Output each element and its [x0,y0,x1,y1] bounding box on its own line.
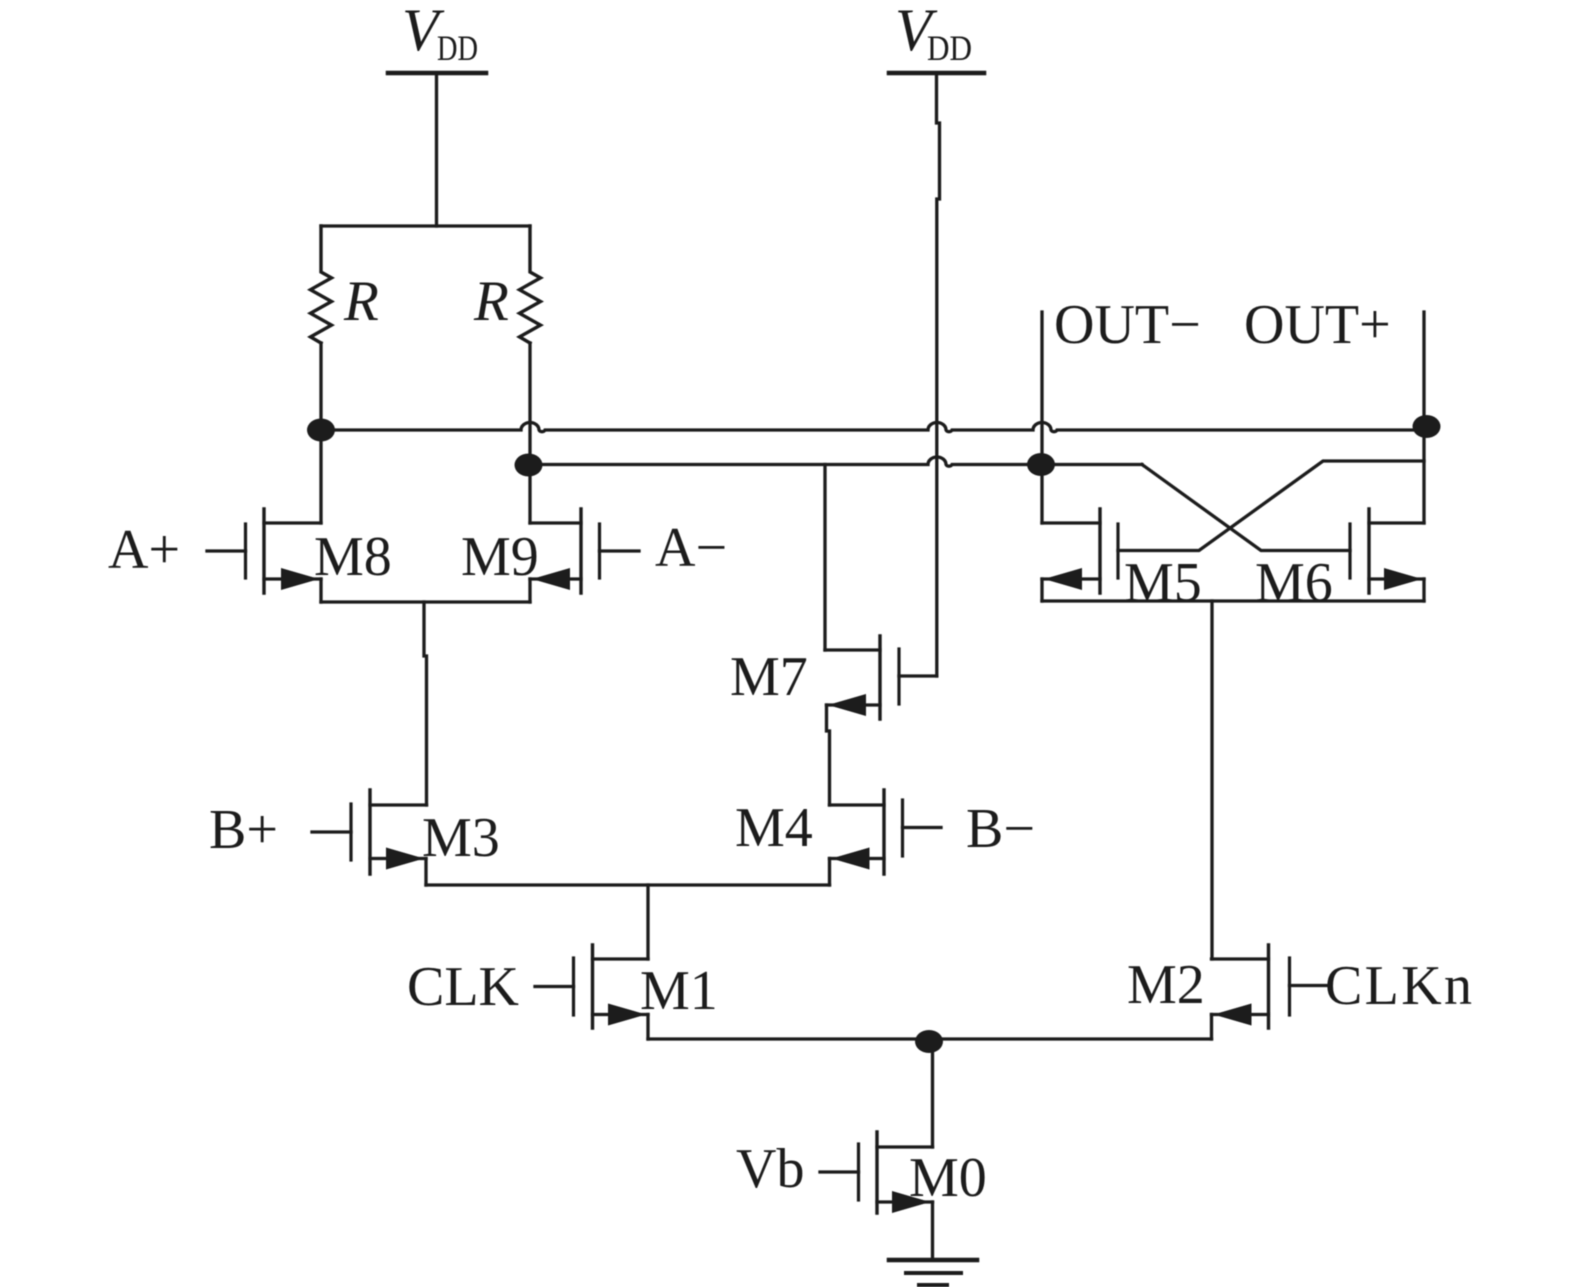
svg-text:A−: A− [655,517,727,579]
svg-text:A+: A+ [108,519,180,581]
wire M8-M9 source rail [321,600,530,603]
svg-text:CLKn: CLKn [1325,955,1472,1017]
svg-text:M5: M5 [1124,552,1202,614]
wire tail to M2 drain [1210,601,1213,959]
label OUT- [1054,294,1201,356]
label M4 [735,797,813,859]
node dot net1-OUT+ [1413,415,1441,438]
wire M5-M6 source rail [1042,599,1424,602]
svg-text:OUT−: OUT− [1054,294,1201,356]
power VDD1 bar [388,71,486,76]
svg-text:R: R [473,270,509,333]
resistor R2 value label R [473,270,509,333]
node dot net2-left [515,454,543,477]
wire M6 gate cross-couple to net2 [1142,465,1350,551]
resistor R1 value label R [343,270,379,333]
wire R1 bottom to M8 drain [319,343,322,523]
resistor R2 [520,226,541,343]
power VDD1 label [402,0,478,68]
wire VDD1 stem [435,75,438,226]
svg-text:M4: M4 [735,797,813,859]
transistor M0 (NMOS, gate left) [820,1132,933,1213]
wire tail to M0 drain [931,1039,934,1147]
svg-text:M0: M0 [909,1147,987,1209]
svg-text:OUT+: OUT+ [1244,294,1391,356]
transistor M9 (NMOS, gate right) [530,509,639,602]
wire OUT- vertical [1040,312,1043,523]
wire OUT+ vertical [1422,312,1425,523]
power VDD2 label [895,0,972,68]
svg-text:M7: M7 [730,646,808,708]
wire net1: M8 drain to OUT+ (hops at x=530, 937, 1042) [321,423,1424,432]
wire M3-M4 source rail [426,883,830,886]
label M1 [640,960,718,1022]
wire R2 bottom to M9 drain [528,343,531,523]
transistor M4 (NMOS, gate right) [830,790,942,885]
wire M0 source to ground [931,1202,934,1260]
svg-text:R: R [343,270,379,333]
label B+ [209,799,278,861]
label A+ [108,519,180,581]
node dot net2-OUT- [1027,453,1055,476]
transistor M7 (NMOS, gate right) [825,636,937,719]
label M0 [909,1147,987,1209]
svg-text:M3: M3 [422,807,500,869]
wire VDD1 rail [321,224,530,227]
label M6 [1255,552,1333,614]
svg-text:M6: M6 [1255,552,1333,614]
svg-text:CLK: CLK [407,956,519,1018]
transistor M6 (NMOS, gate left, cross-coupled) [1350,509,1424,601]
svg-text:B+: B+ [209,799,278,861]
label Vb [736,1138,804,1200]
power VDD2 bar [889,71,984,76]
node dot net1-left [307,419,335,442]
wire M7 drain to net2 [823,465,826,651]
svg-text:M1: M1 [640,960,718,1022]
svg-text:M9: M9 [461,526,539,588]
wire M5 gate cross-couple to OUT+ [1118,461,1424,551]
label M3 [422,807,500,869]
wire tail to M1 drain [646,885,649,959]
transistor M3 (NMOS, gate left) [312,790,427,885]
svg-text:M2: M2 [1127,954,1205,1016]
label M8 [314,526,392,588]
transistor M5 (NMOS, gate right, cross-coupled) [1042,509,1118,601]
svg-text:Vb: Vb [736,1138,804,1200]
wire tail to M3 drain [424,602,427,805]
ground [889,1260,977,1285]
svg-text:DD: DD [437,28,478,68]
label B- [966,798,1035,860]
label CLK [407,956,519,1018]
label M7 [730,646,808,708]
transistor M8 (NMOS, gate left) [207,509,321,602]
label M2 [1127,954,1205,1016]
label CLKn [1325,955,1472,1017]
wire M1-M2 source rail [648,1037,1212,1040]
wire net2: M9 drain to OUT- and M6 gate (hop at x=937) [530,457,1142,466]
transistor M1 (NMOS, gate left) [535,945,648,1039]
label OUT+ [1244,294,1391,356]
label M9 [461,526,539,588]
label A- [655,517,727,579]
wire VDD2 stem to M7 gate [937,75,940,676]
svg-text:B−: B− [966,798,1035,860]
wire M7 source to M4 drain [827,705,830,805]
label M5 [1124,552,1202,614]
transistor M2 (NMOS, gate right) [1212,945,1327,1039]
svg-text:M8: M8 [314,526,392,588]
resistor R1 [311,226,332,343]
svg-text:DD: DD [927,28,972,68]
node dot tail [915,1030,943,1053]
